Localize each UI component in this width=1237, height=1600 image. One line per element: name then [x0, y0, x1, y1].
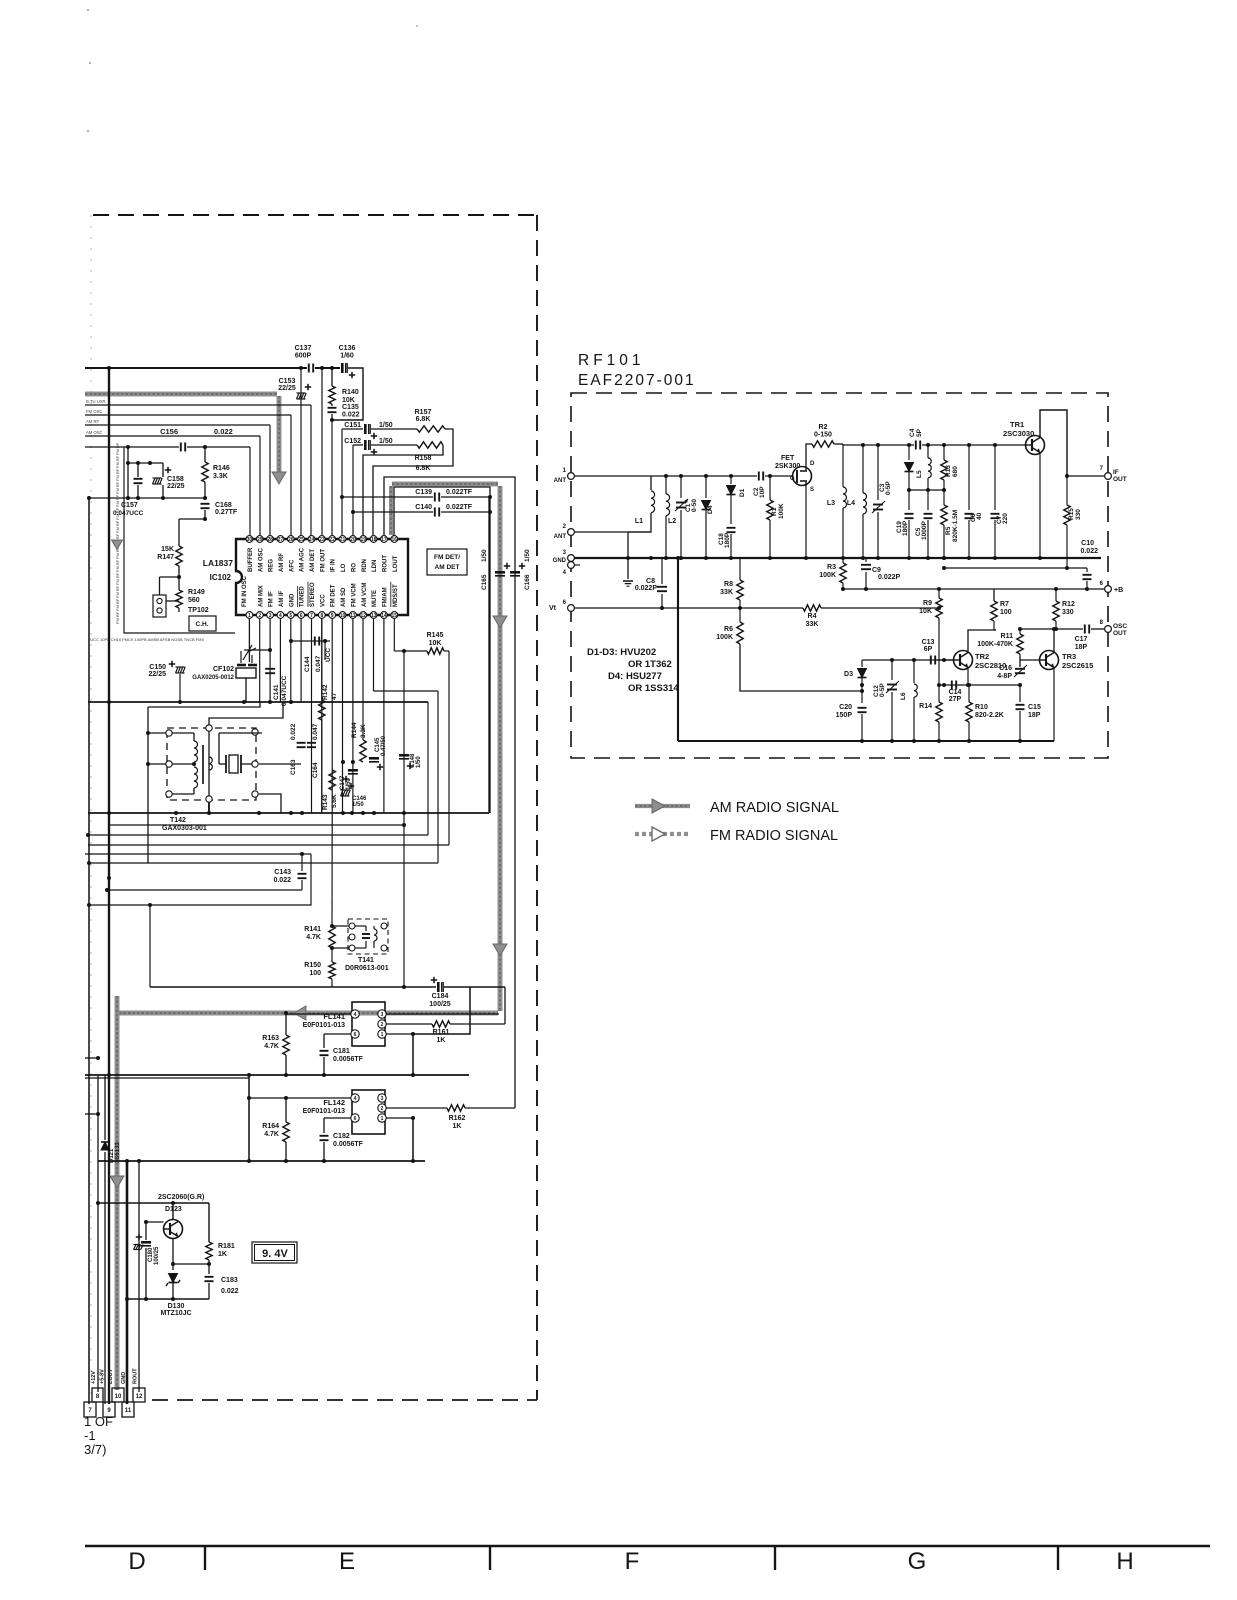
osc out rail	[1020, 628, 1083, 630]
junction	[330, 418, 334, 422]
svg-text:AM VCM: AM VCM	[362, 583, 368, 607]
svg-text:10K: 10K	[429, 640, 442, 647]
inductor L5	[928, 458, 931, 465]
wire	[371, 428, 417, 430]
FM signal legend symbol	[635, 832, 690, 836]
svg-text:10P: 10P	[759, 486, 766, 498]
svg-text:LO: LO	[341, 563, 347, 572]
svg-text:C140: C140	[415, 504, 432, 511]
svg-text:+12V: +12V	[91, 1371, 97, 1384]
resistor R150 100	[331, 948, 333, 962]
ceramic filter CF102 GAX0205-0012	[237, 664, 246, 667]
svg-text:R140: R140	[342, 389, 359, 396]
wire R158 loop to pin19	[363, 445, 443, 539]
svg-text:AM MIX: AM MIX	[258, 585, 264, 607]
capacitor C165 1/50 electrolytic	[495, 571, 505, 574]
capacitor C9 0.022P	[865, 572, 867, 589]
svg-text:TP102: TP102	[188, 607, 209, 614]
svg-text:330: 330	[1062, 609, 1074, 616]
vertical GND thick	[126, 1161, 129, 1404]
left bottom riser	[677, 558, 679, 741]
svg-text:FET: FET	[781, 455, 795, 462]
signal arrow	[294, 1006, 306, 1020]
svg-text:4: 4	[354, 1096, 357, 1102]
svg-text:R15: R15	[1068, 508, 1075, 520]
capacitor C181 0.0056TF	[320, 1050, 329, 1052]
IC pin 3	[267, 612, 274, 619]
svg-text:R8: R8	[724, 581, 733, 588]
resistor R161 1K	[432, 1021, 450, 1027]
svg-text:G: G	[908, 1548, 927, 1575]
wire	[204, 482, 206, 498]
IC pin 7	[308, 612, 315, 619]
svg-text:820K-1.5M: 820K-1.5M	[952, 510, 959, 542]
svg-text:FM OSC: FM OSC	[86, 409, 102, 414]
svg-text:REG: REG	[269, 559, 275, 572]
terminal 6 +B	[1105, 586, 1112, 593]
IC pin 27	[277, 536, 284, 543]
capacitor C7 220	[994, 445, 996, 510]
capacitor C16 4-8P	[1019, 665, 1021, 667]
capacitor C166 1/50 electrolytic	[510, 571, 520, 574]
svg-text:C17: C17	[1075, 636, 1088, 643]
svg-text:C163: C163	[290, 759, 297, 775]
tick F/G	[774, 1546, 776, 1570]
svg-text:FM IF: FM IF	[269, 591, 275, 607]
svg-text:R146: R146	[213, 465, 230, 472]
riser x428	[427, 702, 429, 835]
svg-text:IF IN: IF IN	[331, 559, 337, 572]
signal arrow	[110, 1176, 124, 1188]
svg-text:1: 1	[381, 1116, 384, 1122]
svg-text:180P: 180P	[902, 520, 909, 536]
tick D/E	[204, 1546, 206, 1570]
wire ANT2 in	[574, 531, 651, 533]
wire top supply rail	[85, 367, 307, 369]
svg-text:16: 16	[392, 537, 398, 543]
svg-text:1S5133: 1S5133	[115, 1142, 121, 1163]
resistor R14	[936, 702, 942, 722]
capacitor C183 0.022	[205, 1276, 214, 1278]
wire to riser	[450, 1023, 505, 1025]
svg-text:1/50: 1/50	[352, 802, 364, 808]
FET drain wire to R2	[806, 444, 812, 466]
svg-text:R143: R143	[322, 794, 329, 810]
IC pin 15	[391, 612, 398, 619]
zener D130 MTZ10JC	[172, 1264, 174, 1270]
capacitor C140 0.022TF	[353, 511, 433, 513]
pin13 wire to riser x438	[373, 618, 375, 691]
svg-text:R5: R5	[945, 526, 952, 535]
svg-text:180P: 180P	[724, 532, 731, 548]
svg-text:T141: T141	[358, 957, 374, 964]
wire	[331, 404, 333, 406]
svg-text:1/50: 1/50	[379, 422, 393, 429]
svg-text:9. 4V: 9. 4V	[262, 1248, 288, 1260]
resistor R6 100K	[739, 608, 741, 622]
wire FL141 in	[286, 1013, 351, 1015]
wire C136 loop to pin22	[332, 368, 363, 420]
capacitor C17 18P	[1084, 625, 1086, 634]
vertical x249	[248, 1075, 250, 1161]
svg-text:25: 25	[298, 537, 304, 543]
capacitor C146 1/50 electrolytic	[341, 790, 344, 796]
svg-text:RDN: RDN	[362, 559, 368, 572]
svg-text:FM IN OSC: FM IN OSC	[242, 575, 248, 607]
svg-text:L3: L3	[827, 500, 835, 507]
svg-text:+5-8V: +5-8V	[100, 1369, 106, 1384]
svg-text:22/25: 22/25	[148, 671, 166, 678]
svg-text:G: G	[790, 476, 795, 482]
transistor TR3 2SC2615	[1040, 651, 1059, 670]
tick G/H	[1057, 1546, 1059, 1570]
svg-text:D1-D3: HVU202: D1-D3: HVU202	[587, 647, 656, 658]
wire to pin17 riser	[465, 1107, 515, 1109]
capacitor C6 40	[968, 445, 970, 510]
IC pin 20	[350, 536, 357, 543]
svg-text:C135: C135	[342, 404, 359, 411]
capacitor C152 1/50 electrolytic	[364, 440, 367, 450]
resistor R4 33K	[803, 605, 821, 611]
svg-text:47: 47	[331, 692, 338, 700]
svg-text:0.022: 0.022	[214, 427, 233, 436]
svg-text:23: 23	[319, 537, 325, 543]
riser x150	[149, 905, 151, 987]
svg-text:330: 330	[1075, 509, 1082, 520]
svg-text:0-150: 0-150	[814, 432, 832, 439]
svg-text:T142: T142	[170, 817, 186, 824]
svg-text:OUT: OUT	[1113, 476, 1127, 483]
pin1 wire with FM antenna squiggle	[248, 618, 250, 662]
wire L1 bottom	[628, 513, 651, 532]
svg-text:30: 30	[247, 537, 253, 543]
capacitor C150 22/25 electrolytic	[176, 667, 179, 673]
RF101 module dashed border	[571, 393, 1108, 758]
svg-text:10: 10	[115, 1394, 122, 1400]
svg-text:D: D	[128, 1548, 145, 1575]
svg-text:L5: L5	[916, 470, 923, 478]
svg-text:27P: 27P	[949, 696, 962, 703]
resistor R12 330	[1055, 589, 1057, 601]
IC pin 29	[256, 536, 263, 543]
svg-text:1K: 1K	[218, 1251, 227, 1258]
signal arrow at pin27	[272, 472, 286, 484]
svg-text:C184: C184	[432, 993, 449, 1000]
wire pin23 riser	[321, 368, 323, 539]
svg-text:D4: HSU277: D4: HSU277	[608, 671, 662, 682]
resistor R164 4.7K	[285, 1098, 287, 1122]
inductor L2	[666, 494, 670, 501]
wire IF OUT	[1067, 475, 1104, 477]
capacitor C168 0.27TF	[201, 503, 210, 505]
wire pin21 riser	[341, 429, 343, 539]
capacitor C20 150P	[858, 707, 867, 709]
capacitor C4 5P	[915, 441, 917, 450]
svg-text:1/60: 1/60	[340, 353, 354, 360]
resistor R162 1K	[447, 1105, 465, 1111]
svg-text:AM DET: AM DET	[310, 549, 316, 572]
9.4V box	[252, 1242, 297, 1263]
svg-text:0.022: 0.022	[1080, 548, 1098, 555]
svg-text:AM RF: AM RF	[86, 419, 99, 424]
diode D1	[730, 476, 732, 484]
wire FL142 pin2 out	[386, 1107, 447, 1109]
svg-text:0-5P: 0-5P	[885, 481, 892, 495]
svg-text:24: 24	[309, 537, 315, 543]
svg-text:AM OSC: AM OSC	[86, 430, 103, 435]
svg-text:AM AGC: AM AGC	[300, 547, 306, 572]
wire FL141 pin6 to C181	[324, 1033, 351, 1035]
svg-text:1/50: 1/50	[481, 549, 488, 562]
ground symbol	[623, 580, 633, 582]
svg-text:FM DET: FM DET	[331, 584, 337, 607]
T142 right wires	[259, 763, 301, 765]
svg-text:C164: C164	[312, 762, 319, 778]
svg-text:C165: C165	[481, 574, 488, 590]
wire y845	[88, 844, 449, 846]
svg-text:2: 2	[381, 1022, 384, 1028]
wire	[765, 475, 792, 477]
svg-text:+B: +B	[1114, 587, 1123, 594]
capacitor C19 180P	[908, 490, 910, 510]
T141 internal coil	[373, 926, 375, 929]
wire FL141 pin3	[386, 1013, 499, 1015]
svg-text:0.022P: 0.022P	[878, 574, 901, 581]
T142 bottom stub	[208, 802, 210, 813]
resistor R157 6.8K	[417, 426, 445, 432]
svg-text:#UCC 10PK CH10 FMCK 100PB: #UCC 10PK CH10 FMCK 100PB AMSB AFSB NOSB…	[88, 637, 205, 642]
resistor R8 33K	[739, 558, 741, 580]
AM signal path band top	[85, 392, 277, 397]
IC pin 16	[391, 536, 398, 543]
svg-text:FM RF: FM RF	[115, 611, 120, 624]
wire pin30 riser	[249, 447, 251, 539]
svg-text:100K: 100K	[819, 572, 836, 579]
svg-text:GAX0303-001: GAX0303-001	[162, 825, 207, 832]
svg-text:LOUT: LOUT	[108, 1368, 114, 1384]
capacitor C136 1/60 electrolytic	[341, 363, 344, 373]
IC pin 18	[370, 536, 377, 543]
resistor R141 4.7K	[330, 924, 334, 928]
wire sub rail y568	[944, 567, 1087, 569]
svg-text:R162: R162	[449, 1115, 466, 1122]
pin14 riser	[383, 618, 385, 813]
signal arrow small	[112, 540, 123, 549]
resistor R144 3.3K	[362, 618, 364, 740]
svg-text:100K: 100K	[716, 634, 733, 641]
svg-text:LA1837: LA1837	[203, 558, 234, 568]
junction	[107, 366, 111, 370]
resistor R11 100K-470K	[1019, 629, 1021, 634]
svg-text:R12: R12	[1062, 601, 1075, 608]
svg-text:R4: R4	[808, 613, 817, 620]
variable capacitor C12 0-5P	[891, 660, 893, 680]
resistor R10 820-2.2K	[966, 702, 972, 722]
capacitor C139 0.022TF	[342, 496, 433, 498]
svg-text:C13: C13	[922, 639, 935, 646]
wire ROUT loop pin17	[384, 477, 515, 1108]
terminal 4	[568, 562, 575, 569]
svg-text:FM RF: FM RF	[115, 559, 120, 572]
svg-text:AM RADIO SIGNAL: AM RADIO SIGNAL	[710, 800, 839, 816]
transistor D123 2SC2060	[164, 1220, 183, 1239]
svg-text:0.27TF: 0.27TF	[215, 509, 238, 516]
svg-text:15K: 15K	[161, 546, 174, 553]
wire	[127, 447, 129, 498]
svg-text:L6: L6	[900, 692, 907, 700]
wire bias rail y589 left	[843, 588, 994, 590]
wire +B rail	[994, 588, 1104, 590]
capacitor C2 10P	[758, 472, 760, 481]
svg-text:IC102: IC102	[210, 573, 232, 582]
transistor TR2 2SC2810	[954, 651, 973, 670]
svg-text:11: 11	[125, 1408, 132, 1414]
IC pin 2	[256, 612, 263, 619]
svg-text:ROUT: ROUT	[133, 1368, 139, 1384]
resistor R1 100K	[769, 476, 771, 500]
svg-text:RF101: RF101	[578, 352, 645, 369]
svg-text:STEREO: STEREO	[310, 582, 316, 607]
IC pin 23	[318, 536, 325, 543]
terminal4 stub	[574, 564, 580, 566]
svg-text:5P: 5P	[916, 428, 923, 437]
wire ANT1 in	[574, 476, 651, 490]
svg-text:3: 3	[381, 1096, 384, 1102]
IC pin 30	[246, 536, 253, 543]
svg-text:S: S	[810, 487, 814, 493]
svg-text:CF102: CF102	[213, 666, 234, 673]
svg-text:1/50: 1/50	[379, 438, 393, 445]
svg-text:18P: 18P	[1075, 644, 1088, 651]
svg-text:L1: L1	[635, 518, 643, 525]
svg-text:4-8P: 4-8P	[997, 673, 1012, 680]
svg-text:0.022: 0.022	[273, 877, 291, 884]
wire R6 to D3	[740, 644, 862, 691]
svg-text:R11: R11	[1001, 633, 1014, 640]
capacitor C13 6P	[930, 656, 932, 665]
svg-text:2SC3030: 2SC3030	[1003, 429, 1034, 438]
svg-text:0.022TF: 0.022TF	[446, 489, 473, 496]
signal arrow	[493, 616, 507, 628]
IC pin 21	[339, 536, 346, 543]
svg-text:OSC: OSC	[1113, 623, 1127, 630]
svg-text:FM RF: FM RF	[115, 572, 120, 585]
terminal 2 ANT	[568, 529, 575, 536]
svg-text:6P: 6P	[924, 646, 933, 653]
wire 15K R147 column	[178, 519, 180, 546]
IC pin 19	[360, 536, 367, 543]
wire FL141 pin1	[386, 1033, 413, 1035]
wire pin15	[393, 618, 395, 651]
svg-text:C181: C181	[333, 1048, 350, 1055]
svg-text:0.0056TF: 0.0056TF	[333, 1056, 364, 1063]
svg-text:MTZ10JC: MTZ10JC	[160, 1310, 191, 1317]
svg-text:H: H	[1116, 1548, 1133, 1575]
svg-text:LDN: LDN	[372, 560, 378, 572]
left edge stub y1114	[85, 1113, 98, 1115]
wire	[178, 608, 180, 612]
svg-text:E: E	[339, 1548, 355, 1575]
svg-text:ANT: ANT	[554, 478, 567, 484]
IC pin 14	[381, 612, 388, 619]
T142 core	[202, 745, 204, 784]
FM DET/AM DET callout box	[427, 549, 467, 575]
svg-text:100: 100	[1000, 609, 1012, 616]
svg-text:TR1: TR1	[1010, 420, 1024, 429]
transformer T142 dashed box	[167, 728, 256, 800]
svg-text:FM RF: FM RF	[115, 585, 120, 598]
resistor R146 3.3K	[204, 447, 206, 462]
wire	[178, 566, 180, 590]
svg-text:AM OSC: AM OSC	[258, 547, 264, 572]
svg-text:2: 2	[381, 1106, 384, 1112]
svg-text:C150: C150	[149, 664, 166, 671]
svg-text:560: 560	[188, 597, 200, 604]
IC pin 13	[370, 612, 377, 619]
resistor R143 5.6K	[329, 770, 335, 790]
svg-text:RO: RO	[351, 563, 357, 572]
wire base rail	[98, 1202, 209, 1204]
svg-text:C158: C158	[167, 476, 184, 483]
signal arrow	[493, 944, 507, 956]
svg-text:C153: C153	[279, 378, 296, 385]
svg-text:21: 21	[340, 537, 346, 543]
svg-text:FM VCM: FM VCM	[351, 583, 357, 607]
inductor L3	[843, 487, 847, 494]
resistor R5 820K-1.5M	[941, 505, 947, 525]
svg-text:R150: R150	[304, 962, 321, 969]
svg-text:27: 27	[278, 537, 284, 543]
svg-text:1/50: 1/50	[416, 756, 422, 768]
svg-text:1K: 1K	[437, 1037, 446, 1044]
filter FL141 E0F0101-013	[352, 1002, 385, 1046]
svg-text:28: 28	[267, 537, 273, 543]
C.H. box	[189, 616, 216, 631]
svg-text:FM DET/: FM DET/	[434, 554, 460, 561]
svg-text:TR2: TR2	[975, 652, 989, 661]
svg-text:R13: R13	[945, 465, 952, 477]
svg-text:100K: 100K	[778, 503, 785, 519]
wire bottom rail of cluster	[89, 497, 205, 499]
gray vertical to output	[115, 996, 120, 1390]
inductor L6	[913, 660, 915, 683]
svg-text:LOUT: LOUT	[393, 555, 399, 572]
resistor R2 0-150	[812, 441, 834, 447]
svg-text:6.8K: 6.8K	[416, 465, 431, 472]
IC pin 22	[329, 536, 336, 543]
svg-text:100/25: 100/25	[429, 1001, 451, 1008]
capacitor C141 0.047UCC	[244, 649, 270, 651]
svg-text:VCC: VCC	[320, 594, 326, 607]
svg-text:ROUT: ROUT	[382, 555, 388, 572]
variable capacitor C1 0-50	[680, 476, 682, 498]
diode D121 1S5133	[104, 1075, 106, 1140]
wire LOUT black riser pin16	[394, 487, 490, 813]
capacitor C164 0.047	[307, 742, 316, 744]
svg-text:3/7): 3/7)	[84, 1442, 106, 1457]
capacitor C18 180P	[730, 495, 732, 524]
resistor R163 4.7K	[285, 1014, 287, 1035]
svg-text:C137: C137	[295, 345, 312, 352]
svg-text:0.022P: 0.022P	[635, 585, 658, 592]
IC pin 9	[329, 612, 336, 619]
svg-text:L2: L2	[668, 518, 676, 525]
left bus vertical	[88, 498, 90, 1404]
wire to ground stub	[627, 532, 629, 579]
svg-text:C183: C183	[221, 1277, 238, 1284]
svg-text:GAX0205-0012: GAX0205-0012	[192, 675, 234, 681]
svg-text:MDS/ST: MDS/ST	[393, 584, 399, 607]
